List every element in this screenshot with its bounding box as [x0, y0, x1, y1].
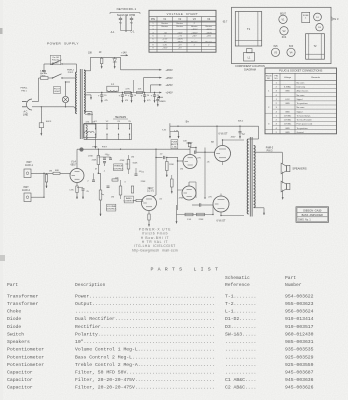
svg-text:No conn: No conn [297, 83, 306, 85]
svg-text:+465V: +465V [206, 29, 213, 31]
svg-text:925-003559: 925-003559 [285, 362, 314, 368]
svg-text:Heater: Heater [205, 25, 212, 28]
svg-text:Polarity......................: Polarity................................… [75, 331, 215, 337]
svg-text:No conn: No conn [297, 107, 306, 109]
svg-text:Volume Control 1 Meg-L........: Volume Control 1 Meg-L..................… [75, 347, 215, 353]
svg-text:956-003624: 956-003624 [285, 309, 314, 315]
svg-text:-3V: -3V [163, 41, 167, 43]
svg-text:C2 AB&C....: C2 AB&C.... [225, 385, 256, 391]
svg-text:Capacitor: Capacitor [7, 370, 33, 376]
svg-text:INST: INST [26, 162, 32, 164]
svg-text:Part: Part [7, 282, 18, 288]
svg-text:Reference: Reference [225, 282, 250, 288]
svg-text:VOLTAGE CHART: VOLTAGE CHART [167, 12, 199, 16]
svg-text:LINE: LINE [23, 113, 29, 116]
svg-text:945-003626: 945-003626 [285, 385, 314, 391]
svg-text:POWER SUPPLY: POWER SUPPLY [47, 42, 79, 46]
svg-text:Diode: Diode [7, 316, 21, 322]
svg-text:Dual Rectifier................: Dual Rectifier..........................… [75, 316, 215, 322]
svg-text:985-003631: 985-003631 [285, 339, 314, 345]
svg-text:955-003623: 955-003623 [285, 301, 314, 307]
svg-text:Signal: Signal [297, 99, 303, 101]
svg-text:Fuse: Fuse [41, 75, 47, 77]
svg-text:JACK-1: JACK-1 [25, 164, 34, 167]
svg-text:Schematic: Schematic [225, 275, 250, 281]
svg-text:220K: 220K [199, 219, 204, 221]
svg-text:GND: GND [285, 128, 290, 130]
svg-text:L-1........: L-1........ [225, 309, 256, 315]
svg-text:CONTROL: CONTROL [113, 168, 124, 170]
svg-text:..............................: ........................................… [75, 310, 215, 315]
svg-text:PG 3: PG 3 [333, 18, 339, 21]
svg-text:SW-1&3.....: SW-1&3..... [225, 331, 256, 337]
svg-text:Bass Control 2 Meg-L..........: Bass Control 2 Meg-L....................… [75, 354, 215, 360]
svg-text:Capacitor: Capacitor [7, 385, 33, 391]
svg-text:Heater: Heater [176, 25, 183, 28]
svg-text:6 V6 GT: 6 V6 GT [217, 220, 226, 223]
svg-text:Heater: Heater [161, 22, 168, 25]
svg-text:Remarks: Remarks [311, 76, 321, 79]
svg-text:Signal: Signal [297, 111, 303, 113]
svg-text:+14V: +14V [121, 53, 127, 55]
svg-text:Part: Part [285, 275, 296, 281]
svg-text:954-003622: 954-003622 [285, 293, 314, 299]
svg-text:Potentiometer: Potentiometer [7, 347, 44, 353]
svg-text:PIN 1: PIN 1 [21, 90, 27, 92]
svg-text:PLUG & SOCKET CONNECTIONS: PLUG & SOCKET CONNECTIONS [279, 69, 322, 73]
svg-text:Heater: Heater [191, 40, 198, 43]
svg-text:220K: 220K [92, 160, 97, 162]
svg-text:10K: 10K [138, 88, 142, 90]
svg-text:DWG. No. 1: DWG. No. 1 [298, 220, 311, 222]
svg-text:Diode: Diode [7, 324, 21, 330]
svg-text:10K: 10K [183, 141, 187, 143]
svg-text:Switch: Switch [7, 331, 24, 337]
svg-text:Transformer: Transformer [7, 293, 39, 299]
svg-text:935-003535: 935-003535 [285, 347, 314, 353]
svg-text:6.3VAC: 6.3VAC [284, 86, 292, 89]
svg-text:117VAC: 117VAC [284, 114, 292, 117]
svg-text:Filter, 20-20-20-475V.........: Filter, 20-20-20-475V...................… [75, 385, 215, 391]
svg-text:NETWORK-1: NETWORK-1 [117, 7, 137, 11]
svg-text:500K: 500K [133, 163, 138, 165]
svg-text:From power cord: From power cord [297, 123, 314, 126]
svg-text:1M: 1M [49, 171, 52, 173]
svg-text:919-003517: 919-003517 [285, 324, 314, 330]
svg-text:BASS AMPLIFIER: BASS AMPLIFIER [302, 214, 323, 217]
svg-text:1.5K: 1.5K [187, 219, 192, 221]
svg-text:To fused lamps: To fused lamps [297, 115, 311, 117]
svg-text:Polarity: Polarity [52, 59, 60, 62]
svg-text:HEATERS: HEATERS [115, 116, 127, 119]
svg-text:NO.: NO. [267, 78, 271, 80]
svg-text:6 V6 GT: 6 V6 GT [219, 133, 228, 136]
svg-text:...........: ........... [225, 363, 256, 368]
svg-text:To speakers: To speakers [297, 127, 308, 130]
svg-text:+5V: +5V [178, 47, 182, 49]
svg-text:To speakers: To speakers [297, 102, 308, 105]
svg-text:Amp chassis: Amp chassis [297, 90, 309, 93]
svg-text:+160V: +160V [206, 32, 213, 34]
svg-text:C1 AB&C....: C1 AB&C.... [225, 377, 256, 383]
svg-text:470K: 470K [120, 160, 125, 162]
svg-text:6EU7: 6EU7 [71, 165, 77, 167]
svg-text:470K: 470K [179, 198, 184, 200]
svg-text:SPEAKERS: SPEAKERS [292, 167, 306, 171]
svg-text:Switch: Switch [52, 61, 59, 64]
svg-text:DIAGRAM: DIAGRAM [244, 68, 256, 71]
svg-text:6EU7: 6EU7 [187, 143, 193, 145]
svg-text:...........: ........... [225, 348, 256, 353]
svg-text:C-1: C-1 [131, 31, 136, 34]
svg-text:T-2........: T-2........ [225, 301, 256, 307]
svg-text:-1.5V: -1.5V [162, 38, 168, 40]
svg-text:PIN: PIN [151, 18, 155, 21]
svg-text:BASS: BASS [126, 197, 132, 200]
svg-text:Heater: Heater [205, 40, 212, 43]
svg-text:PIN 7: PIN 7 [102, 147, 108, 149]
svg-text:PIN 2: PIN 2 [68, 72, 74, 74]
svg-text:SW-3: SW-3 [46, 121, 52, 123]
svg-text:270K: 270K [88, 156, 93, 158]
svg-text:-26V: -26V [206, 35, 211, 37]
svg-text:1M: 1M [111, 197, 114, 199]
svg-text:945-003636: 945-003636 [285, 377, 314, 383]
svg-text:220K: 220K [169, 164, 174, 166]
svg-text:Number: Number [285, 282, 302, 288]
svg-text:PWR-3: PWR-3 [266, 148, 274, 150]
svg-text:117VAC: 117VAC [284, 119, 292, 122]
svg-text:1/2 V1: 1/2 V1 [147, 191, 154, 193]
svg-text:-26V: -26V [192, 35, 197, 37]
svg-text:D3.........: D3......... [225, 324, 256, 330]
svg-text:T1: T1 [247, 27, 251, 31]
svg-text:1.5A: 1.5A [172, 145, 177, 148]
svg-text:+2V: +2V [178, 44, 182, 46]
svg-text:1.4V: 1.4V [163, 44, 168, 46]
svg-text:Output........................: Output..................................… [75, 301, 215, 307]
svg-text:Heater: Heater [176, 22, 183, 25]
svg-text:Filter, 20-20-20-475V.........: Filter, 20-20-20-475V...................… [75, 377, 215, 383]
svg-text:220K: 220K [141, 181, 146, 183]
svg-text:P A R T S L I S T: P A R T S L I S T [150, 266, 218, 272]
svg-text:Potentiometer: Potentiometer [7, 362, 44, 368]
svg-text:Treble Control 2 Meg-A........: Treble Control 2 Meg-A..................… [75, 362, 215, 368]
svg-text:+455V: +455V [165, 77, 173, 80]
svg-text:GND: GND [285, 91, 290, 93]
svg-text:450V: 450V [231, 137, 236, 139]
svg-text:945-003687: 945-003687 [285, 370, 314, 376]
svg-text:GIBSON GA30: GIBSON GA30 [303, 208, 322, 212]
svg-text:PIN 3: PIN 3 [267, 150, 273, 152]
svg-text:Dial lamp: Dial lamp [297, 87, 307, 89]
svg-text:V1-A: V1-A [71, 161, 77, 164]
svg-text:.02: .02 [160, 154, 163, 156]
svg-text:Power.........................: Power...................................… [75, 293, 215, 299]
svg-text:Transformer: Transformer [7, 301, 39, 307]
svg-text:6V6: 6V6 [273, 46, 278, 48]
svg-text:65.7: 65.7 [223, 22, 228, 24]
svg-text:6C4: 6C4 [282, 36, 287, 39]
svg-text:To On-Off switch: To On-Off switch [297, 119, 313, 122]
svg-text:...........: ........... [225, 340, 256, 345]
svg-text:...........: ........... [225, 371, 256, 376]
svg-text:Rectifier.....................: Rectifier...............................… [75, 324, 215, 330]
svg-text:Voltage: Voltage [284, 76, 292, 79]
svg-text:LIGHT: LIGHT [54, 91, 61, 93]
svg-text:4.7K: 4.7K [125, 88, 130, 90]
svg-text:6EU7: 6EU7 [148, 188, 154, 190]
svg-text:...........: ........... [225, 355, 256, 360]
svg-text:NO.: NO. [274, 78, 278, 80]
svg-text:T2: T2 [313, 44, 317, 48]
svg-text:JACK-2: JACK-2 [22, 189, 31, 192]
svg-text:T-1........: T-1........ [225, 293, 256, 299]
svg-text:GND: GND [285, 103, 290, 105]
svg-text:INST: INST [23, 187, 29, 189]
svg-text:960-012430: 960-012430 [285, 331, 314, 337]
svg-text:CONTROL: CONTROL [106, 209, 117, 211]
svg-text:+465V: +465V [165, 69, 173, 72]
svg-text:Ground: Ground [297, 131, 305, 134]
svg-text:Speakers: Speakers [7, 339, 30, 345]
svg-text:SW-2: SW-2 [238, 121, 244, 123]
svg-text:htlp-Gewgmesh mail-scm: htlp-Gewgmesh mail-scm [132, 248, 178, 252]
svg-text:B+: B+ [186, 120, 190, 124]
svg-text:+380V: +380V [177, 41, 184, 43]
svg-text:68K: 68K [55, 170, 59, 172]
svg-text:117VAC: 117VAC [284, 123, 292, 126]
svg-text:PWR-1: PWR-1 [20, 88, 28, 90]
svg-text:GND: GND [285, 111, 290, 113]
svg-text:10"...........................: 10".....................................… [75, 339, 215, 345]
svg-text:Heater: Heater [161, 25, 168, 28]
svg-text:A-1: A-1 [111, 31, 115, 34]
svg-text:925-003529: 925-003529 [285, 354, 314, 360]
svg-text:D1-D2......: D1-D2...... [225, 316, 256, 322]
svg-text:GND: GND [285, 132, 290, 134]
svg-text:6V6: 6V6 [289, 46, 294, 48]
svg-text:+50V: +50V [177, 32, 183, 34]
svg-text:No conn: No conn [297, 95, 306, 97]
svg-text:50MFD: 50MFD [159, 101, 166, 103]
svg-text:Capacitor: Capacitor [7, 377, 33, 383]
svg-text:Heater: Heater [191, 25, 198, 28]
svg-text:1M: 1M [131, 157, 134, 159]
svg-text:1M: 1M [180, 169, 183, 171]
svg-text:7.4V: 7.4V [162, 130, 167, 132]
svg-text:+140V: +140V [165, 92, 173, 95]
svg-text:+160V: +160V [191, 32, 198, 34]
svg-text:+465V: +465V [191, 29, 198, 31]
svg-text:+ 1V: + 1V [177, 35, 182, 37]
svg-text:ITG-LHA ICIELCGIST: ITG-LHA ICIELCGIST [134, 244, 176, 248]
svg-text:Potentiometer: Potentiometer [7, 354, 44, 360]
svg-text:+425V: +425V [165, 84, 173, 87]
svg-text:PIN 1: PIN 1 [92, 147, 98, 149]
svg-text:Description: Description [75, 282, 106, 288]
svg-text:919-013414: 919-013414 [285, 316, 314, 322]
svg-text:6.3V: 6.3V [285, 99, 290, 101]
svg-text:1.5K: 1.5K [69, 190, 74, 192]
svg-text:- 65V: - 65V [162, 47, 168, 49]
svg-text:Choke: Choke [7, 309, 21, 315]
svg-text:10K: 10K [88, 53, 93, 55]
svg-text:+160V: +160V [177, 38, 184, 40]
svg-text:Filter, 50 MFD 50V............: Filter, 50 MFD 50V......................… [75, 370, 215, 376]
